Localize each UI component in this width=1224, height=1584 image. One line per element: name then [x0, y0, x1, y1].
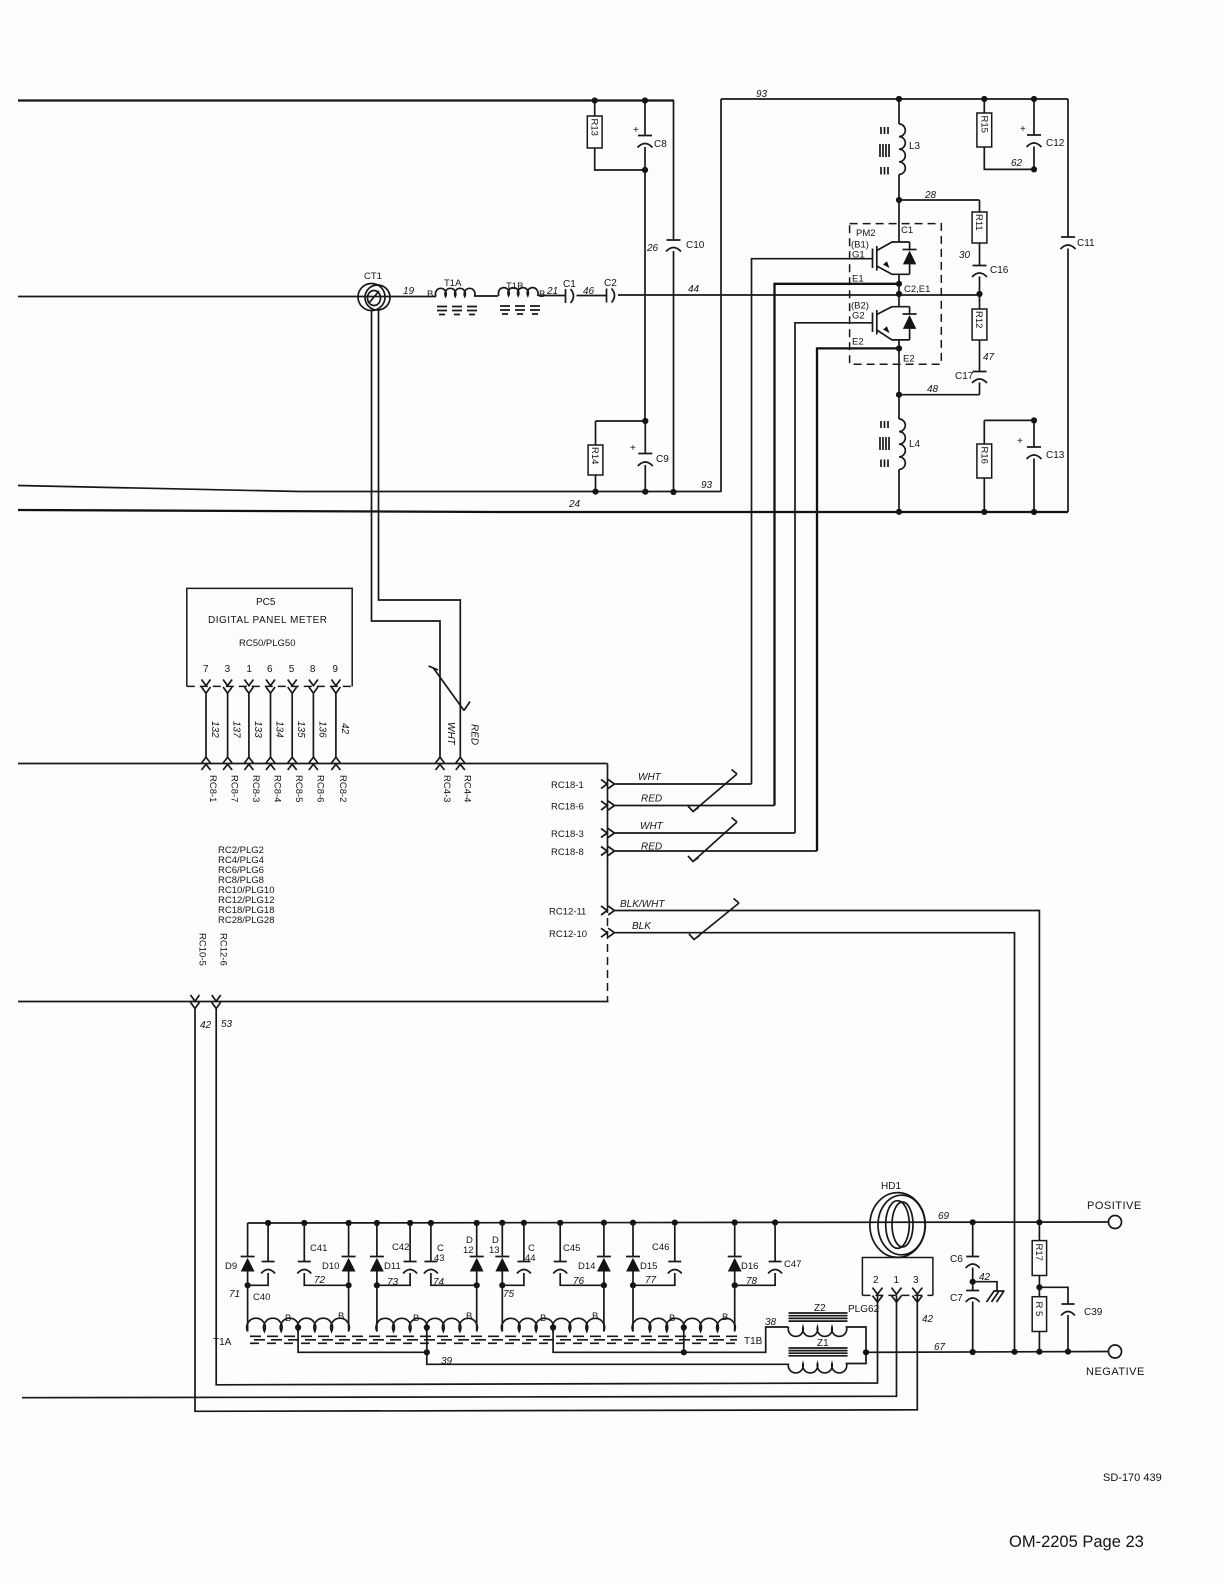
capacitor C46	[633, 1223, 682, 1286]
svg-text:R14: R14	[589, 447, 600, 464]
svg-text:3: 3	[225, 664, 231, 675]
resistor R14	[588, 418, 648, 495]
core Z2 lines	[789, 1313, 848, 1321]
svg-text:72: 72	[314, 1275, 326, 1286]
svg-text:71: 71	[229, 1289, 240, 1300]
core Z1 lines	[789, 1348, 848, 1356]
svg-text:30: 30	[959, 250, 971, 261]
svg-text:RC8-3: RC8-3	[250, 775, 261, 802]
svg-text:73: 73	[387, 1277, 399, 1288]
inductor L3	[896, 96, 921, 200]
pin 9	[331, 664, 350, 757]
capacitor C16	[972, 265, 1009, 297]
wire RC12-6 long lead	[216, 1009, 877, 1385]
connector RC8-4	[266, 757, 283, 802]
svg-text:C6: C6	[950, 1254, 963, 1265]
resistor R16	[977, 420, 1034, 515]
connector RC4-4	[456, 757, 465, 770]
svg-text:PC5: PC5	[256, 597, 276, 608]
inductor T1B primary	[498, 281, 538, 296]
wire collector C1	[898, 200, 900, 242]
capacitor C45	[553, 1223, 604, 1287]
node C6-C7 junction	[970, 1272, 991, 1285]
svg-text:7: 7	[203, 664, 209, 675]
capacitor C6	[950, 1219, 980, 1281]
svg-text:OM-2205 Page 23: OM-2205 Page 23	[1009, 1533, 1144, 1551]
svg-text:RC18-8: RC18-8	[551, 847, 584, 858]
svg-text:RC18-3: RC18-3	[551, 829, 584, 840]
svg-text:39: 39	[441, 1356, 453, 1367]
pin 2 PLG62	[873, 1275, 883, 1302]
svg-text:9: 9	[332, 664, 338, 675]
module PM2 dashed box	[850, 224, 942, 365]
resistor R15	[977, 96, 1034, 169]
wire RC18 vertical	[607, 764, 609, 906]
svg-text:42: 42	[339, 723, 350, 735]
capacitor C12	[1020, 96, 1065, 173]
wire CT1 secondary right	[379, 310, 461, 757]
svg-text:D14: D14	[578, 1261, 595, 1272]
svg-text:RC12-6: RC12-6	[218, 933, 229, 966]
svg-text:T1B: T1B	[506, 281, 523, 292]
svg-text:C47: C47	[784, 1259, 801, 1270]
svg-text:132: 132	[209, 721, 220, 738]
ground chassis	[973, 1282, 1005, 1302]
svg-text:42: 42	[200, 1020, 212, 1031]
svg-text:R17: R17	[1033, 1244, 1044, 1261]
svg-text:D9: D9	[225, 1261, 237, 1272]
svg-text:C42: C42	[392, 1242, 409, 1253]
svg-text:RC12-11: RC12-11	[549, 907, 586, 918]
svg-text:21: 21	[546, 286, 558, 297]
wire top bus right (93)	[721, 98, 1068, 100]
svg-text:CT1: CT1	[364, 271, 382, 282]
svg-text:B: B	[466, 1311, 472, 1322]
svg-text:PLG62: PLG62	[848, 1304, 880, 1315]
capacitor C13	[1017, 417, 1065, 515]
resistor R11	[959, 200, 987, 266]
wire gate G1	[752, 259, 873, 784]
svg-text:C2,E1: C2,E1	[904, 284, 930, 295]
svg-text:WHT: WHT	[640, 821, 664, 832]
svg-text:C10: C10	[686, 240, 705, 251]
core T1 dashes	[250, 1336, 737, 1343]
winding T1B group3	[501, 1318, 604, 1331]
capacitor C2	[604, 278, 617, 303]
connector RC8-1	[202, 757, 219, 802]
transistor IGBT B1	[873, 242, 910, 274]
wire RC8 row	[18, 763, 608, 765]
wire tap4	[681, 1324, 687, 1355]
svg-text:1: 1	[894, 1275, 900, 1286]
svg-text:135: 135	[295, 721, 306, 738]
break symbol RC18 upper	[688, 770, 737, 812]
svg-text:B: B	[540, 1313, 546, 1324]
svg-text:67: 67	[934, 1342, 946, 1353]
svg-text:RC8-1: RC8-1	[207, 775, 218, 802]
diode D9	[225, 1223, 255, 1300]
svg-text:RC18-6: RC18-6	[551, 802, 584, 813]
svg-text:RC10-5: RC10-5	[197, 933, 208, 966]
svg-text:B: B	[669, 1313, 675, 1324]
capacitor C1	[563, 279, 576, 303]
svg-text:RC4-3: RC4-3	[441, 775, 452, 802]
svg-text:C39: C39	[1084, 1307, 1103, 1318]
svg-text:D10: D10	[322, 1261, 339, 1272]
connector RC4-3	[436, 757, 445, 770]
svg-text:C7: C7	[950, 1293, 963, 1304]
connector RC8-2	[331, 757, 348, 802]
core L4 dashes	[880, 421, 889, 467]
capacitor C44	[502, 1223, 535, 1286]
capacitor C17	[955, 371, 987, 395]
svg-text:136: 136	[316, 721, 327, 738]
transistor IGBT B2	[873, 294, 910, 340]
connector RC8-5	[288, 757, 305, 802]
connector RC12-11	[549, 899, 1039, 1223]
svg-text:26: 26	[646, 243, 659, 254]
svg-text:B: B	[413, 1313, 419, 1324]
connector RC8-7	[223, 757, 240, 802]
svg-text:+: +	[630, 443, 636, 454]
svg-text:G2: G2	[852, 311, 865, 322]
svg-text:C41: C41	[310, 1243, 327, 1254]
wire emitter E2	[817, 340, 902, 851]
svg-text:R12: R12	[973, 311, 984, 328]
connector RC12-6	[212, 933, 233, 1030]
transformer HD1	[870, 1181, 925, 1257]
svg-text:RED: RED	[641, 794, 662, 805]
module PC5 box	[187, 588, 352, 686]
svg-text:T1A: T1A	[444, 278, 462, 289]
svg-text:44: 44	[525, 1253, 536, 1264]
connector RC18-3	[551, 821, 795, 840]
svg-text:74: 74	[433, 1277, 445, 1288]
wire positive bus	[248, 1222, 1109, 1223]
pin 8	[309, 664, 328, 757]
svg-text:43: 43	[434, 1253, 445, 1264]
node 48 wire	[896, 384, 980, 398]
connector RC18-1	[551, 772, 752, 791]
diode D15	[626, 1223, 657, 1332]
wire emitter E1	[775, 274, 903, 805]
svg-text:RC18-1: RC18-1	[551, 780, 584, 791]
wire top bus left	[18, 99, 674, 101]
svg-text:46: 46	[583, 286, 595, 297]
diode D12	[463, 1223, 484, 1332]
svg-text:E2: E2	[852, 337, 864, 348]
svg-text:C8: C8	[654, 139, 667, 150]
svg-text:12: 12	[463, 1245, 474, 1256]
diode B2 freewheel	[903, 307, 917, 340]
wire CT1 secondary left	[372, 311, 441, 758]
capacitor C41	[297, 1223, 348, 1286]
svg-text:19: 19	[403, 286, 415, 297]
capacitor C7	[950, 1282, 980, 1352]
svg-text:6: 6	[267, 664, 273, 675]
svg-text:NEGATIVE: NEGATIVE	[1086, 1366, 1145, 1378]
svg-text:69: 69	[938, 1211, 950, 1222]
core T1B dashes	[500, 306, 540, 314]
svg-text:47: 47	[983, 352, 995, 363]
svg-text:SD-170 439: SD-170 439	[1103, 1472, 1162, 1484]
svg-text:B: B	[285, 1313, 291, 1324]
terminal POSITIVE	[1087, 1200, 1142, 1229]
wire negative line	[866, 1349, 1109, 1356]
svg-text:C46: C46	[652, 1242, 669, 1253]
svg-text:RC8-7: RC8-7	[229, 775, 240, 802]
svg-text:C45: C45	[563, 1243, 580, 1254]
svg-text:L4: L4	[909, 439, 921, 450]
connector RC10-5	[191, 933, 212, 1031]
diode D16	[728, 1223, 759, 1332]
winding T1A group1	[247, 1318, 350, 1331]
capacitor C40	[245, 1223, 276, 1332]
svg-text:PM2: PM2	[856, 228, 876, 239]
svg-text:134: 134	[274, 721, 285, 738]
svg-text:WHT: WHT	[638, 772, 662, 783]
pin 1	[244, 664, 263, 757]
svg-text:B: B	[338, 1311, 344, 1322]
svg-text:C2: C2	[604, 278, 617, 289]
svg-text:R13: R13	[588, 119, 599, 136]
svg-text:8: 8	[310, 664, 316, 675]
terminal NEGATIVE	[1086, 1345, 1145, 1378]
svg-text:1: 1	[246, 664, 252, 675]
svg-text:C1: C1	[563, 279, 576, 290]
capacitor C47	[735, 1223, 802, 1286]
svg-text:RC8-5: RC8-5	[293, 775, 304, 802]
svg-text:5: 5	[289, 664, 295, 675]
module PLG62 box	[862, 1258, 933, 1296]
svg-text:42: 42	[922, 1314, 934, 1325]
wire RC10 row	[18, 1001, 609, 1003]
svg-text:C13: C13	[1046, 450, 1065, 461]
svg-text:13: 13	[489, 1245, 500, 1256]
text plug list	[218, 845, 275, 926]
svg-text:38: 38	[765, 1317, 777, 1328]
capacitor C43	[424, 1223, 477, 1288]
capacitor C9	[630, 421, 669, 495]
break symbol RC4 leads	[429, 666, 471, 711]
break symbol RC12	[689, 899, 739, 940]
svg-text:C11: C11	[1077, 238, 1095, 249]
svg-text:B: B	[539, 289, 545, 300]
svg-text:62: 62	[1011, 158, 1023, 169]
diode D14	[578, 1223, 611, 1332]
capacitor C11	[1061, 99, 1096, 512]
svg-text:2: 2	[873, 1275, 879, 1286]
resistor R17	[1032, 1219, 1046, 1296]
svg-text:T1B: T1B	[744, 1336, 763, 1347]
svg-text:RC12-10: RC12-10	[549, 929, 587, 940]
capacitor C10	[646, 101, 705, 496]
capacitor C8	[633, 97, 667, 170]
svg-text:HD1: HD1	[881, 1181, 901, 1192]
wire RC10-5 long lead	[195, 1009, 917, 1412]
svg-text:28: 28	[924, 190, 937, 201]
resistor R5	[1032, 1297, 1046, 1352]
wire pin1 long lead	[22, 1296, 897, 1398]
inductor Z1	[788, 1352, 866, 1373]
svg-text:C40: C40	[253, 1292, 270, 1303]
inductor L4	[896, 395, 921, 515]
diode D13	[489, 1223, 515, 1332]
transformer CT1	[358, 271, 390, 311]
svg-text:C16: C16	[990, 265, 1009, 276]
svg-text:RC8-2: RC8-2	[337, 775, 348, 802]
node C2,E1	[896, 284, 931, 297]
diode D11	[370, 1223, 401, 1332]
core L3 dashes	[880, 127, 889, 175]
svg-text:T1A: T1A	[213, 1337, 232, 1348]
svg-text:75: 75	[503, 1289, 515, 1300]
svg-text:POSITIVE: POSITIVE	[1087, 1200, 1142, 1212]
svg-text:RC50/PLG50: RC50/PLG50	[239, 638, 296, 649]
svg-text:R 5: R 5	[1033, 1302, 1044, 1317]
capacitor C42	[377, 1223, 417, 1285]
svg-text:53: 53	[221, 1019, 233, 1030]
svg-text:BLK/WHT: BLK/WHT	[620, 899, 665, 910]
resistor R12	[972, 294, 994, 372]
connector RC12-10	[549, 921, 1015, 1352]
svg-text:C1: C1	[901, 225, 913, 236]
wire gate G2	[795, 323, 873, 833]
pin 3	[223, 664, 242, 757]
wire main line 44	[18, 284, 980, 297]
svg-text:R15: R15	[979, 116, 990, 133]
svg-text:B: B	[427, 289, 433, 300]
svg-text:RC8-4: RC8-4	[272, 775, 283, 802]
pin 5	[288, 664, 307, 757]
wire tap3 to 38	[550, 1324, 789, 1352]
connector RC8-3	[244, 757, 261, 802]
wire C8-C9 vertical	[644, 170, 646, 421]
svg-text:48: 48	[927, 384, 939, 395]
svg-text:E2: E2	[903, 354, 915, 365]
svg-text:RED: RED	[469, 724, 480, 745]
resistor R13	[587, 97, 648, 173]
node 28 wire	[896, 190, 980, 203]
winding T1B group4	[632, 1318, 735, 1331]
connector RC18-6	[551, 794, 775, 813]
svg-text:+: +	[633, 125, 639, 136]
svg-text:R11: R11	[973, 214, 984, 231]
node bus dots	[265, 1219, 778, 1226]
svg-text:D11: D11	[384, 1261, 401, 1272]
svg-text:B: B	[722, 1312, 728, 1323]
pin 6	[266, 664, 285, 757]
svg-text:L3: L3	[909, 141, 921, 152]
pin 3 PLG62	[912, 1275, 922, 1302]
diode D10	[322, 1223, 356, 1332]
connector RC18-8	[551, 842, 817, 859]
svg-text:24: 24	[568, 499, 581, 510]
capacitor C39	[1039, 1287, 1102, 1351]
svg-text:+: +	[1017, 436, 1023, 447]
svg-text:77: 77	[645, 1275, 657, 1286]
svg-text:93: 93	[756, 89, 768, 100]
svg-text:76: 76	[573, 1276, 585, 1287]
node Z junction	[863, 1349, 869, 1355]
connector RC8-6	[309, 757, 326, 802]
svg-text:133: 133	[252, 721, 263, 738]
pin 7	[202, 664, 221, 757]
core T1A dashes	[437, 307, 477, 315]
wire 24 bus	[18, 510, 1068, 512]
svg-text:93: 93	[701, 480, 713, 491]
svg-text:RC8-6: RC8-6	[314, 775, 325, 802]
svg-text:RC28/PLG28: RC28/PLG28	[218, 915, 275, 926]
wire 93 horizontal line	[18, 486, 721, 492]
winding T1A group2	[376, 1318, 477, 1331]
svg-text:+: +	[1020, 124, 1026, 135]
inductor Z2	[788, 1327, 866, 1352]
wire tap2 to 39	[424, 1324, 789, 1367]
svg-text:RC4-4: RC4-4	[461, 775, 472, 802]
svg-text:137: 137	[231, 721, 242, 738]
svg-text:BLK: BLK	[632, 921, 652, 932]
svg-text:C12: C12	[1046, 138, 1065, 149]
svg-text:WHT: WHT	[445, 722, 456, 746]
inductor T1A primary	[435, 278, 475, 297]
break symbol RC18 lower	[688, 818, 737, 862]
svg-text:R16: R16	[979, 447, 990, 464]
svg-text:D16: D16	[741, 1261, 758, 1272]
svg-text:3: 3	[913, 1275, 919, 1286]
svg-text:C17: C17	[955, 371, 974, 382]
wire tap1	[295, 1324, 427, 1352]
svg-text:C9: C9	[656, 454, 669, 465]
svg-text:44: 44	[688, 284, 700, 295]
diode B1 freewheel	[903, 242, 917, 274]
svg-text:B: B	[592, 1311, 598, 1322]
wire 93 vertical	[720, 99, 722, 492]
svg-text:DIGITAL PANEL METER: DIGITAL PANEL METER	[208, 615, 328, 626]
pin 1 PLG62	[892, 1275, 902, 1302]
svg-text:D15: D15	[640, 1261, 657, 1272]
